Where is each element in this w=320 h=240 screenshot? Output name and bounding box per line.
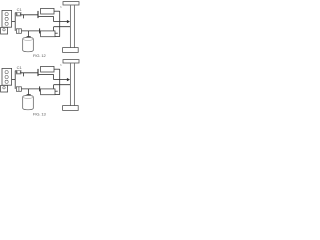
wire strip to bus xyxy=(12,21,16,23)
connector bar T1 xyxy=(37,11,39,18)
connector bar T1 xyxy=(37,69,39,76)
connector bar T2 xyxy=(39,28,41,33)
outlet circle 2 xyxy=(5,17,8,20)
pole top cap xyxy=(63,2,79,5)
outlet strip J13 xyxy=(2,68,12,85)
pole left edge xyxy=(69,63,71,105)
pole bottom cap xyxy=(63,48,79,53)
wire box A output xyxy=(54,68,60,70)
wire W2 xyxy=(39,16,54,18)
svg-text:C1: C1 xyxy=(17,65,23,70)
pole right edge xyxy=(73,5,75,47)
outlet circle 1 xyxy=(5,71,8,74)
wire W2 xyxy=(39,74,54,76)
outlet circle 3 xyxy=(5,22,8,25)
wire box B output stub xyxy=(55,32,58,34)
wire W1 xyxy=(21,72,38,74)
wire bus vertical xyxy=(14,13,16,31)
stub on W1 xyxy=(23,73,25,77)
plug D1 xyxy=(16,87,21,92)
wire step box B top xyxy=(53,85,55,90)
wire W2 step down xyxy=(53,17,55,22)
box A xyxy=(41,66,54,72)
box B xyxy=(41,89,55,95)
wire arrow feed xyxy=(54,21,68,23)
tank flange xyxy=(27,93,31,95)
outlet circle 3 xyxy=(5,80,8,83)
wire drop to tank xyxy=(28,31,30,38)
wall box xyxy=(1,27,8,34)
pole top cap xyxy=(63,60,79,63)
outlet circle 2 xyxy=(5,75,8,78)
wall box xyxy=(1,85,8,92)
arrowhead xyxy=(67,78,70,81)
svg-text:C1: C1 xyxy=(17,7,23,12)
wire box B to drop xyxy=(55,94,60,96)
wire W3 xyxy=(21,88,40,90)
svg-text:FIG. 12: FIG. 12 xyxy=(33,53,47,58)
pole left edge xyxy=(69,5,71,47)
outlet strip J12 xyxy=(2,10,12,27)
wire to pole xyxy=(54,84,70,86)
wire box B to drop xyxy=(55,36,60,38)
wire W3 xyxy=(21,30,40,32)
pole right edge xyxy=(73,63,75,105)
plug C1 xyxy=(16,12,21,16)
wire bus to plug xyxy=(15,70,16,72)
box A xyxy=(41,8,54,14)
wire bus vertical xyxy=(14,71,16,89)
outlet circle 1 xyxy=(5,13,8,16)
tank (cylinder) xyxy=(23,95,34,109)
wall box knob xyxy=(3,29,5,31)
wire bus to plug xyxy=(15,12,16,14)
wire to pole xyxy=(54,26,70,28)
box B xyxy=(41,31,55,37)
wire drop from box A xyxy=(59,69,61,94)
wire box B output stub xyxy=(55,90,58,92)
wire arrow feed xyxy=(54,79,68,81)
stub on W1 xyxy=(23,15,25,19)
wire W1 xyxy=(21,14,38,16)
tank flange xyxy=(27,35,31,37)
pole bottom cap xyxy=(63,106,79,111)
arrowhead xyxy=(67,20,70,23)
wire box A output xyxy=(54,10,60,12)
wire W2 step down xyxy=(53,75,55,80)
wall box knob xyxy=(3,87,5,89)
wire drop to tank xyxy=(28,89,30,96)
svg-text:FIG. 13: FIG. 13 xyxy=(33,112,47,117)
wire drop from box A xyxy=(59,11,61,36)
plug C1 xyxy=(16,70,21,74)
tank (cylinder) xyxy=(23,37,34,51)
connector bar T2 xyxy=(39,86,41,91)
wire step box B top xyxy=(53,27,55,32)
wire strip to bus xyxy=(12,79,16,81)
plug D1 xyxy=(16,29,21,34)
